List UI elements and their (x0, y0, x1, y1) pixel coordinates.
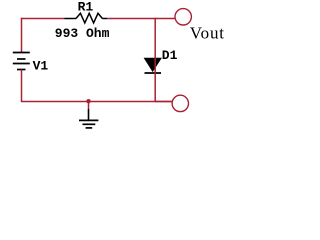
wire left vertical upper (21, 18, 23, 52)
wire top-left horizontal (21, 18, 65, 20)
terminal bottom circle (172, 95, 188, 111)
resistor R1 (65, 13, 108, 23)
svg-text:D1: D1 (162, 48, 178, 63)
wire ground stub (88, 102, 90, 110)
svg-text:Vout: Vout (190, 24, 225, 43)
svg-text:R1: R1 (78, 0, 94, 15)
wire left vertical lower (21, 70, 23, 102)
wire stub to top terminal (155, 18, 175, 20)
junction dot (86, 99, 90, 103)
wire top-right horizontal (107, 18, 155, 20)
wire stub to bottom terminal (155, 101, 172, 103)
wire bottom horizontal (21, 101, 172, 103)
battery V1 (13, 53, 30, 70)
wire diode vertical (154, 18, 156, 102)
svg-text:V1: V1 (33, 58, 49, 73)
diode D1 (145, 58, 162, 73)
terminal top circle (175, 9, 191, 25)
svg-text:993 Ohm: 993 Ohm (55, 26, 110, 41)
ground (79, 109, 98, 128)
